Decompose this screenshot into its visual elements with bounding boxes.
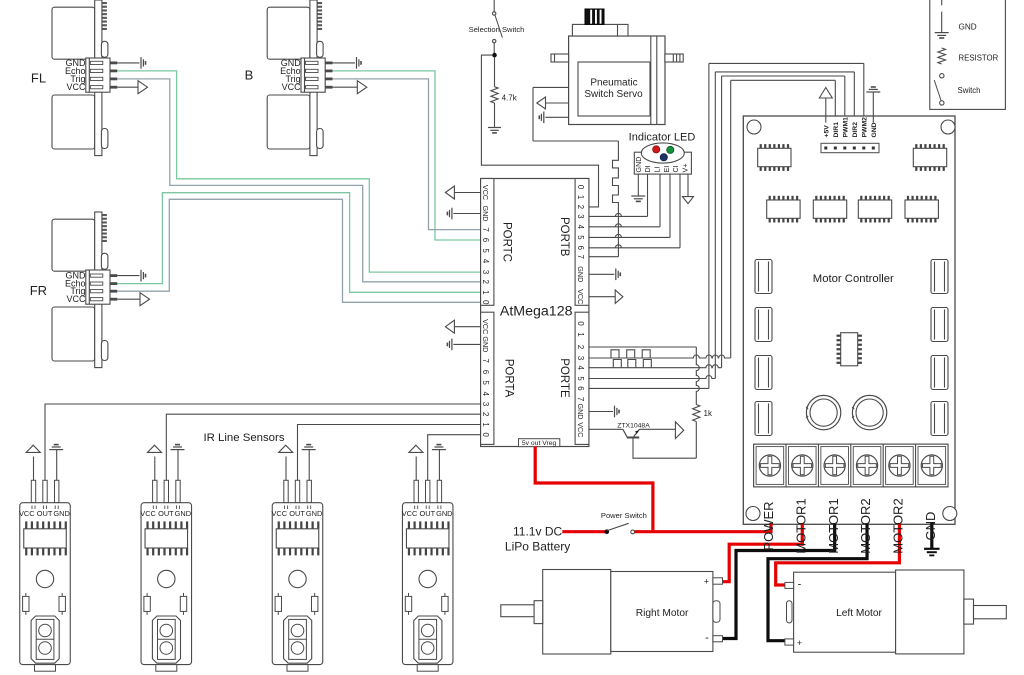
svg-text:4: 4	[576, 225, 585, 230]
svg-text:3: 3	[481, 402, 490, 406]
svg-text:-: -	[798, 579, 802, 591]
svg-text:CI: CI	[671, 165, 680, 172]
svg-text:3: 3	[576, 356, 585, 360]
svg-text:11.1v DC: 11.1v DC	[513, 524, 562, 538]
svg-text:1: 1	[481, 290, 490, 294]
svg-text:VCC: VCC	[282, 82, 302, 92]
svg-text:3: 3	[576, 214, 585, 218]
svg-text:EI: EI	[662, 166, 671, 173]
svg-text:VCC: VCC	[402, 509, 418, 518]
svg-text:Power Switch: Power Switch	[601, 511, 647, 520]
svg-text:LI: LI	[653, 167, 662, 173]
svg-text:DIR1: DIR1	[833, 122, 840, 138]
svg-text:DI: DI	[643, 165, 652, 172]
svg-text:5: 5	[576, 376, 585, 381]
svg-text:3: 3	[481, 270, 490, 274]
svg-text:OUT: OUT	[158, 509, 174, 518]
svg-text:5: 5	[576, 235, 585, 240]
svg-text:Left Motor: Left Motor	[836, 608, 882, 619]
svg-text:GND: GND	[481, 206, 490, 222]
svg-text:FR: FR	[30, 283, 47, 298]
svg-text:Pneumatic: Pneumatic	[590, 78, 637, 89]
svg-text:-: -	[705, 632, 709, 644]
svg-text:V+: V+	[681, 164, 690, 173]
svg-text:4: 4	[481, 392, 490, 397]
svg-text:+: +	[797, 638, 802, 648]
svg-text:GND: GND	[436, 509, 452, 518]
svg-text:GND: GND	[175, 509, 191, 518]
svg-text:VCC: VCC	[271, 509, 287, 518]
svg-text:GND: GND	[871, 122, 878, 137]
svg-text:FL: FL	[31, 71, 46, 86]
svg-text:AtMega128: AtMega128	[500, 303, 573, 319]
svg-text:1k: 1k	[704, 409, 713, 418]
svg-text:VCC: VCC	[576, 422, 585, 437]
svg-text:0: 0	[481, 300, 490, 305]
svg-text:Indicator LED: Indicator LED	[629, 131, 696, 143]
svg-text:MOTOR2: MOTOR2	[858, 498, 873, 553]
svg-text:PWM1: PWM1	[842, 117, 849, 138]
svg-text:MOTOR1: MOTOR1	[793, 498, 808, 553]
svg-text:PORTA: PORTA	[503, 359, 515, 398]
svg-text:5v out Vreg: 5v out Vreg	[522, 440, 557, 447]
svg-text:POWER: POWER	[761, 501, 776, 550]
svg-text:PORTE: PORTE	[558, 358, 570, 398]
svg-text:IR Line Sensors: IR Line Sensors	[203, 432, 284, 444]
svg-text:PORTB: PORTB	[558, 217, 570, 257]
svg-text:7: 7	[481, 359, 490, 363]
svg-text:0: 0	[481, 433, 490, 438]
svg-text:MOTOR2: MOTOR2	[891, 498, 906, 553]
svg-text:5: 5	[481, 249, 490, 254]
svg-text:MOTOR1: MOTOR1	[826, 498, 841, 553]
svg-text:DIR2: DIR2	[852, 122, 859, 138]
svg-text:4: 4	[576, 366, 585, 371]
svg-text:VCC: VCC	[19, 509, 35, 518]
svg-text:OUT: OUT	[289, 509, 305, 518]
svg-text:OUT: OUT	[419, 509, 435, 518]
svg-text:6: 6	[576, 386, 585, 390]
svg-text:PWM2: PWM2	[861, 117, 868, 138]
svg-text:PORTC: PORTC	[500, 222, 512, 262]
svg-text:GND: GND	[576, 404, 585, 420]
svg-text:1: 1	[481, 422, 490, 426]
svg-text:GND: GND	[306, 509, 322, 518]
svg-text:1: 1	[576, 195, 585, 199]
svg-text:Switch Servo: Switch Servo	[584, 89, 643, 100]
svg-text:RESISTOR: RESISTOR	[959, 54, 999, 63]
svg-text:VCC: VCC	[576, 289, 585, 304]
svg-text:2: 2	[481, 280, 490, 284]
svg-text:7: 7	[576, 397, 585, 401]
svg-text:B: B	[245, 68, 254, 83]
svg-text:6: 6	[481, 370, 490, 374]
svg-text:Motor Controller: Motor Controller	[813, 273, 894, 285]
svg-text:VCC: VCC	[481, 319, 490, 334]
svg-text:5: 5	[481, 381, 490, 386]
svg-text:1: 1	[576, 332, 585, 336]
svg-text:VCC: VCC	[481, 185, 490, 200]
svg-text:2: 2	[576, 205, 585, 209]
svg-text:GND: GND	[576, 266, 585, 282]
svg-text:2: 2	[481, 412, 490, 416]
svg-text:6: 6	[576, 246, 585, 250]
svg-text:6: 6	[481, 238, 490, 242]
svg-text:GND: GND	[923, 512, 938, 541]
svg-text:Selection Switch: Selection Switch	[469, 25, 525, 34]
svg-text:4: 4	[481, 259, 490, 264]
svg-text:0: 0	[576, 185, 585, 190]
svg-text:GND: GND	[53, 509, 69, 518]
svg-text:VCC: VCC	[66, 294, 86, 304]
svg-text:Switch: Switch	[958, 86, 981, 95]
svg-text:+: +	[704, 576, 709, 586]
svg-text:LiPo Battery: LiPo Battery	[505, 540, 570, 554]
svg-text:0: 0	[576, 321, 585, 326]
svg-text:GND: GND	[959, 22, 977, 31]
svg-text:Right Motor: Right Motor	[636, 608, 689, 619]
svg-text:ZTX1048A: ZTX1048A	[617, 422, 650, 429]
svg-text:7: 7	[576, 255, 585, 259]
svg-text:VCC: VCC	[66, 82, 86, 92]
svg-text:VCC: VCC	[140, 509, 156, 518]
svg-text:4.7k: 4.7k	[502, 93, 518, 102]
svg-text:GND: GND	[634, 157, 643, 173]
svg-text:OUT: OUT	[37, 509, 53, 518]
svg-text:GND: GND	[481, 336, 490, 352]
svg-text:2: 2	[576, 345, 585, 349]
svg-text:+5V: +5V	[823, 125, 830, 138]
svg-text:7: 7	[481, 227, 490, 231]
